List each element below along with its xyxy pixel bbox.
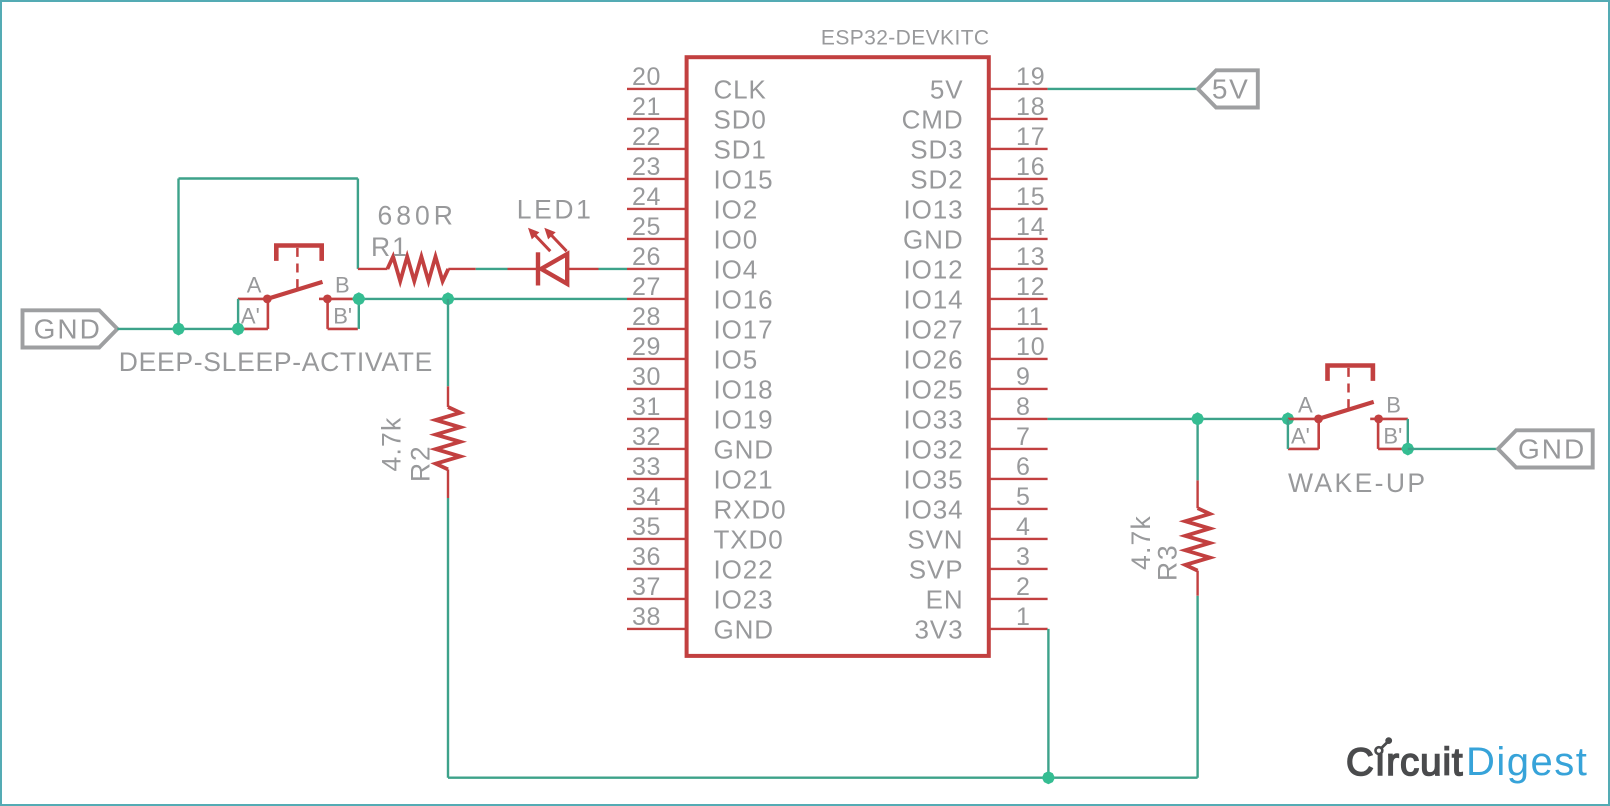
pin 8 (IO33) right stub bbox=[989, 418, 1048, 420]
svg-text:IO27: IO27 bbox=[904, 315, 964, 345]
svg-text:DEEP-SLEEP-ACTIVATE: DEEP-SLEEP-ACTIVATE bbox=[119, 347, 433, 377]
svg-text:28: 28 bbox=[632, 303, 661, 331]
svg-text:CLK: CLK bbox=[714, 75, 767, 105]
svg-text:680R: 680R bbox=[378, 201, 457, 231]
svg-text:10: 10 bbox=[1016, 333, 1045, 361]
svg-text:A': A' bbox=[241, 304, 260, 329]
switch S2 WAKE-UP actuator (button cap) bbox=[1328, 366, 1373, 381]
svg-text:19: 19 bbox=[1016, 63, 1045, 91]
svg-text:R1: R1 bbox=[371, 232, 409, 262]
svg-text:IO4: IO4 bbox=[714, 255, 759, 285]
svg-text:8: 8 bbox=[1016, 393, 1031, 421]
svg-text:IO16: IO16 bbox=[714, 285, 774, 315]
wire GND flag to switch S1 A-prime bbox=[117, 328, 238, 330]
svg-text:WAKE-UP: WAKE-UP bbox=[1288, 468, 1428, 498]
node junction IO33 at S2 A-prime bbox=[1281, 412, 1294, 425]
pin 32 (GND) left stub bbox=[627, 448, 687, 450]
wire pin19 5V to supply flag bbox=[1048, 88, 1198, 90]
wire pin 8 (IO33) to switch S2 bbox=[1048, 418, 1288, 420]
resistor R1 left lead bbox=[358, 268, 388, 270]
pin 23 (IO15) left stub bbox=[627, 178, 687, 180]
pin 28 (IO17) left stub bbox=[627, 328, 687, 330]
LED1 emission arrow 1 bbox=[535, 235, 550, 251]
svg-text:GND: GND bbox=[714, 615, 774, 645]
svg-text:IO19: IO19 bbox=[714, 405, 774, 435]
switch S1 DEEP-SLEEP-ACTIVATE terminal A dot bbox=[263, 295, 272, 304]
svg-text:31: 31 bbox=[632, 393, 661, 421]
svg-text:6: 6 bbox=[1016, 453, 1031, 481]
svg-text:IO22: IO22 bbox=[714, 555, 774, 585]
svg-text:38: 38 bbox=[632, 603, 661, 631]
pin 31 (IO19) left stub bbox=[627, 418, 687, 420]
switch S2 WAKE-UP blade bbox=[1319, 402, 1374, 419]
switch S1 DEEP-SLEEP-ACTIVATE actuator (button cap) bbox=[276, 246, 321, 261]
pin 13 (IO12) right stub bbox=[989, 268, 1048, 270]
svg-text:SD0: SD0 bbox=[714, 105, 767, 135]
svg-text:IO23: IO23 bbox=[714, 585, 774, 615]
svg-text:IO17: IO17 bbox=[714, 315, 774, 345]
svg-text:B: B bbox=[1386, 392, 1401, 417]
svg-text:13: 13 bbox=[1016, 243, 1045, 271]
wire pin 1 (3V3) drop bbox=[1047, 629, 1049, 778]
svg-text:15: 15 bbox=[1016, 183, 1045, 211]
node junction IO16 at S1 B-prime bbox=[352, 292, 365, 305]
svg-text:SD1: SD1 bbox=[714, 135, 767, 165]
svg-text:GND: GND bbox=[714, 435, 774, 465]
switch S1 DEEP-SLEEP-ACTIVATE terminal B stub bbox=[319, 298, 327, 301]
wire IO16 net down to R2 bbox=[447, 299, 449, 386]
pin 36 (IO22) left stub bbox=[627, 568, 687, 570]
logo probe icon ring bbox=[1376, 747, 1383, 754]
wire bottom run up to R3 bbox=[1196, 596, 1198, 778]
svg-text:21: 21 bbox=[632, 93, 661, 121]
svg-text:32: 32 bbox=[632, 423, 661, 451]
svg-text:R2: R2 bbox=[406, 445, 436, 482]
svg-text:3V3: 3V3 bbox=[915, 615, 964, 645]
svg-text:IO21: IO21 bbox=[714, 465, 774, 495]
svg-text:24: 24 bbox=[632, 183, 661, 211]
pin 34 (RXD0) left stub bbox=[627, 508, 687, 510]
svg-text:IO25: IO25 bbox=[904, 375, 964, 405]
node junction bottom run at 3V3 drop bbox=[1042, 771, 1055, 784]
svg-text:4.7k: 4.7k bbox=[377, 417, 407, 472]
svg-text:GND: GND bbox=[34, 314, 102, 345]
pin 27 (IO16) left stub bbox=[627, 298, 687, 300]
wire S2 A-prime box left side bbox=[1287, 419, 1289, 449]
pin 10 (IO26) right stub bbox=[989, 358, 1048, 360]
svg-text:29: 29 bbox=[632, 333, 661, 361]
IC U1 ESP32-DEVKITC body bbox=[687, 57, 989, 656]
node junction GND at S1 A-prime bbox=[232, 322, 245, 335]
resistor R1 body (680R) bbox=[387, 257, 448, 282]
svg-text:12: 12 bbox=[1016, 273, 1045, 301]
svg-text:2: 2 bbox=[1016, 573, 1031, 601]
pin 16 (SD2) right stub bbox=[989, 178, 1048, 180]
wire S2 to ground flag bbox=[1408, 448, 1498, 450]
pin 25 (IO0) left stub bbox=[627, 238, 687, 240]
switch S2 A lead bbox=[1288, 418, 1319, 421]
svg-text:Cırcuit: Cırcuit bbox=[1346, 741, 1464, 784]
pin 35 (TXD0) left stub bbox=[627, 538, 687, 540]
switch S1 A lead (top of A-prime box) bbox=[238, 298, 267, 301]
svg-text:IO26: IO26 bbox=[904, 345, 964, 375]
pin 4 (SVN) right stub bbox=[989, 538, 1048, 540]
switch S1 A-prime box bottom bbox=[238, 328, 268, 331]
switch S2 A-prime box right side bbox=[1317, 419, 1320, 449]
switch S1 B-prime box bottom bbox=[328, 328, 358, 331]
svg-text:B: B bbox=[335, 272, 350, 297]
svg-text:IO5: IO5 bbox=[714, 345, 759, 375]
pin 37 (IO23) left stub bbox=[627, 598, 687, 600]
pin 38 (GND) left stub bbox=[627, 628, 687, 630]
svg-text:TXD0: TXD0 bbox=[714, 525, 784, 555]
svg-text:17: 17 bbox=[1016, 123, 1045, 151]
wire S1 A-prime box left side to GND bbox=[237, 299, 239, 329]
LED1 cathode bar bbox=[536, 252, 540, 285]
switch S1 DEEP-SLEEP-ACTIVATE terminal B dot bbox=[323, 295, 332, 304]
svg-text:4.7k: 4.7k bbox=[1126, 515, 1156, 570]
svg-text:SVN: SVN bbox=[907, 525, 963, 555]
switch S2 B lead (top of B-prime box) bbox=[1379, 418, 1408, 421]
switch S2 B-prime box bottom bbox=[1378, 448, 1405, 451]
node junction IO16 at R2 bbox=[441, 292, 454, 305]
pin 26 (IO4) left stub bbox=[627, 268, 687, 270]
pin 14 (GND) right stub bbox=[989, 238, 1048, 240]
svg-text:IO12: IO12 bbox=[904, 255, 964, 285]
svg-text:36: 36 bbox=[632, 543, 661, 571]
svg-text:25: 25 bbox=[632, 213, 661, 241]
ground flag GND (right) bbox=[1498, 430, 1593, 467]
node junction GND at S2 B-prime bbox=[1401, 442, 1414, 455]
pin 21 (SD0) left stub bbox=[627, 118, 687, 120]
svg-text:IO0: IO0 bbox=[714, 225, 759, 255]
switch S1 DEEP-SLEEP-ACTIVATE actuator dashed link bbox=[296, 248, 299, 290]
LED1 triangle bbox=[541, 254, 567, 284]
svg-text:IO14: IO14 bbox=[904, 285, 964, 315]
svg-text:5: 5 bbox=[1016, 483, 1031, 511]
wire top loop drop to R1 bbox=[357, 179, 359, 269]
wire R3 to net IO33 bbox=[1196, 419, 1198, 480]
switch S2 WAKE-UP terminal A dot bbox=[1314, 415, 1323, 424]
wire junction to top loop riser bbox=[177, 179, 179, 329]
svg-text:Digest: Digest bbox=[1466, 740, 1588, 784]
svg-text:IO33: IO33 bbox=[904, 405, 964, 435]
logo probe icon dot bbox=[1385, 737, 1392, 744]
pin 2 (EN) right stub bbox=[989, 598, 1048, 600]
svg-text:IO35: IO35 bbox=[904, 465, 964, 495]
wire bottom horizontal run bbox=[448, 777, 1198, 779]
svg-text:14: 14 bbox=[1016, 213, 1045, 241]
svg-text:IO15: IO15 bbox=[714, 165, 774, 195]
LED1 emission arrow 2 bbox=[551, 235, 566, 251]
svg-text:EN: EN bbox=[926, 585, 964, 615]
svg-text:A: A bbox=[1298, 392, 1313, 417]
pin 30 (IO18) left stub bbox=[627, 388, 687, 390]
pin 33 (IO21) left stub bbox=[627, 478, 687, 480]
svg-text:23: 23 bbox=[632, 153, 661, 181]
resistor R2 top lead bbox=[447, 386, 449, 407]
switch S1 DEEP-SLEEP-ACTIVATE blade bbox=[267, 282, 322, 299]
svg-text:1: 1 bbox=[1016, 603, 1031, 631]
switch S1 B lead to net IO16 bbox=[327, 298, 354, 301]
svg-text:7: 7 bbox=[1016, 423, 1031, 451]
switch S1 B-prime box left side bbox=[326, 299, 329, 329]
svg-text:30: 30 bbox=[632, 363, 661, 391]
svg-text:LED1: LED1 bbox=[517, 195, 594, 225]
switch S2 B-prime box left side bbox=[1377, 419, 1380, 449]
svg-text:SD3: SD3 bbox=[910, 135, 963, 165]
power flag 5V bbox=[1198, 70, 1258, 107]
svg-text:SD2: SD2 bbox=[910, 165, 963, 195]
switch S2 A-prime box bottom bbox=[1288, 448, 1319, 451]
svg-text:IO34: IO34 bbox=[904, 495, 964, 525]
pin 15 (IO13) right stub bbox=[989, 208, 1048, 210]
resistor R3 bottom lead bbox=[1196, 571, 1198, 596]
svg-text:20: 20 bbox=[632, 63, 661, 91]
svg-text:34: 34 bbox=[632, 483, 661, 511]
resistor R3 top lead bbox=[1196, 480, 1198, 508]
pin 18 (CMD) right stub bbox=[989, 118, 1048, 120]
svg-text:3: 3 bbox=[1016, 543, 1031, 571]
svg-text:A: A bbox=[247, 272, 262, 297]
svg-text:IO13: IO13 bbox=[904, 195, 964, 225]
svg-text:11: 11 bbox=[1016, 303, 1044, 331]
pin 12 (IO14) right stub bbox=[989, 298, 1048, 300]
pin 1 (3V3) right stub bbox=[989, 628, 1048, 630]
pin 9 (IO25) right stub bbox=[989, 388, 1048, 390]
svg-text:9: 9 bbox=[1016, 363, 1031, 391]
svg-text:27: 27 bbox=[632, 273, 661, 301]
resistor R2 bottom lead bbox=[447, 469, 449, 498]
svg-text:35: 35 bbox=[632, 513, 661, 541]
wire top loop horizontal bbox=[179, 177, 358, 179]
pin 24 (IO2) left stub bbox=[627, 208, 687, 210]
svg-text:5V: 5V bbox=[1212, 74, 1249, 105]
svg-text:33: 33 bbox=[632, 453, 661, 481]
switch S1 A-prime box right side bbox=[267, 299, 270, 329]
logo probe icon shaft bbox=[1381, 742, 1387, 748]
resistor R3 body (4.7k) bbox=[1185, 508, 1210, 570]
pin 5 (IO34) right stub bbox=[989, 508, 1048, 510]
svg-text:18: 18 bbox=[1016, 93, 1045, 121]
pin 11 (IO27) right stub bbox=[989, 328, 1048, 330]
pin 22 (SD1) left stub bbox=[627, 148, 687, 150]
pin 19 (5V) right stub bbox=[989, 88, 1048, 90]
pin 7 (IO32) right stub bbox=[989, 448, 1048, 450]
pin 17 (SD3) right stub bbox=[989, 148, 1048, 150]
switch S2 WAKE-UP actuator dashed link bbox=[1347, 368, 1350, 410]
svg-text:IO32: IO32 bbox=[904, 435, 964, 465]
resistor R2 body (4.7k) bbox=[436, 407, 461, 469]
svg-text:4: 4 bbox=[1016, 513, 1031, 541]
node junction GND/top-loop bbox=[172, 322, 185, 335]
ground flag GND (left) bbox=[23, 310, 118, 347]
switch S2 WAKE-UP terminal B stub bbox=[1370, 418, 1378, 421]
svg-text:5V: 5V bbox=[930, 75, 964, 105]
switch S2 WAKE-UP terminal B dot bbox=[1374, 415, 1383, 424]
wire R2 to bottom GND/3V3 run bbox=[447, 498, 449, 778]
svg-text:37: 37 bbox=[632, 573, 661, 601]
svg-text:SVP: SVP bbox=[909, 555, 964, 585]
node junction IO33 at R3 bbox=[1191, 412, 1204, 425]
pin 20 (CLK) left stub bbox=[627, 88, 687, 90]
svg-text:IO18: IO18 bbox=[714, 375, 774, 405]
svg-text:GND: GND bbox=[1518, 434, 1586, 465]
svg-text:22: 22 bbox=[632, 123, 661, 151]
pin 29 (IO5) left stub bbox=[627, 358, 687, 360]
wire S1 B-prime box right side bbox=[358, 299, 360, 329]
svg-text:R3: R3 bbox=[1153, 544, 1183, 581]
wire LED1 to pin 26 (IO4) bbox=[599, 268, 628, 270]
svg-text:B': B' bbox=[333, 304, 352, 329]
pin 6 (IO35) right stub bbox=[989, 478, 1048, 480]
LED1 anode lead bbox=[567, 268, 598, 270]
svg-text:A': A' bbox=[1291, 424, 1310, 449]
wire S2 B-prime box right side to GND bbox=[1407, 419, 1409, 449]
svg-text:16: 16 bbox=[1016, 153, 1045, 181]
svg-text:B': B' bbox=[1383, 424, 1402, 449]
svg-text:GND: GND bbox=[903, 225, 963, 255]
LED1 cathode lead bbox=[508, 268, 538, 270]
wire net IO16 switch to pin 27 bbox=[359, 298, 627, 300]
wire R1 to LED1 bbox=[476, 268, 508, 270]
svg-text:ESP32-DEVKITC: ESP32-DEVKITC bbox=[821, 27, 990, 50]
svg-text:IO2: IO2 bbox=[714, 195, 759, 225]
svg-text:RXD0: RXD0 bbox=[714, 495, 787, 525]
svg-text:CMD: CMD bbox=[902, 105, 964, 135]
resistor R1 right lead bbox=[448, 268, 475, 270]
pin 3 (SVP) right stub bbox=[989, 568, 1048, 570]
svg-text:26: 26 bbox=[632, 243, 661, 271]
